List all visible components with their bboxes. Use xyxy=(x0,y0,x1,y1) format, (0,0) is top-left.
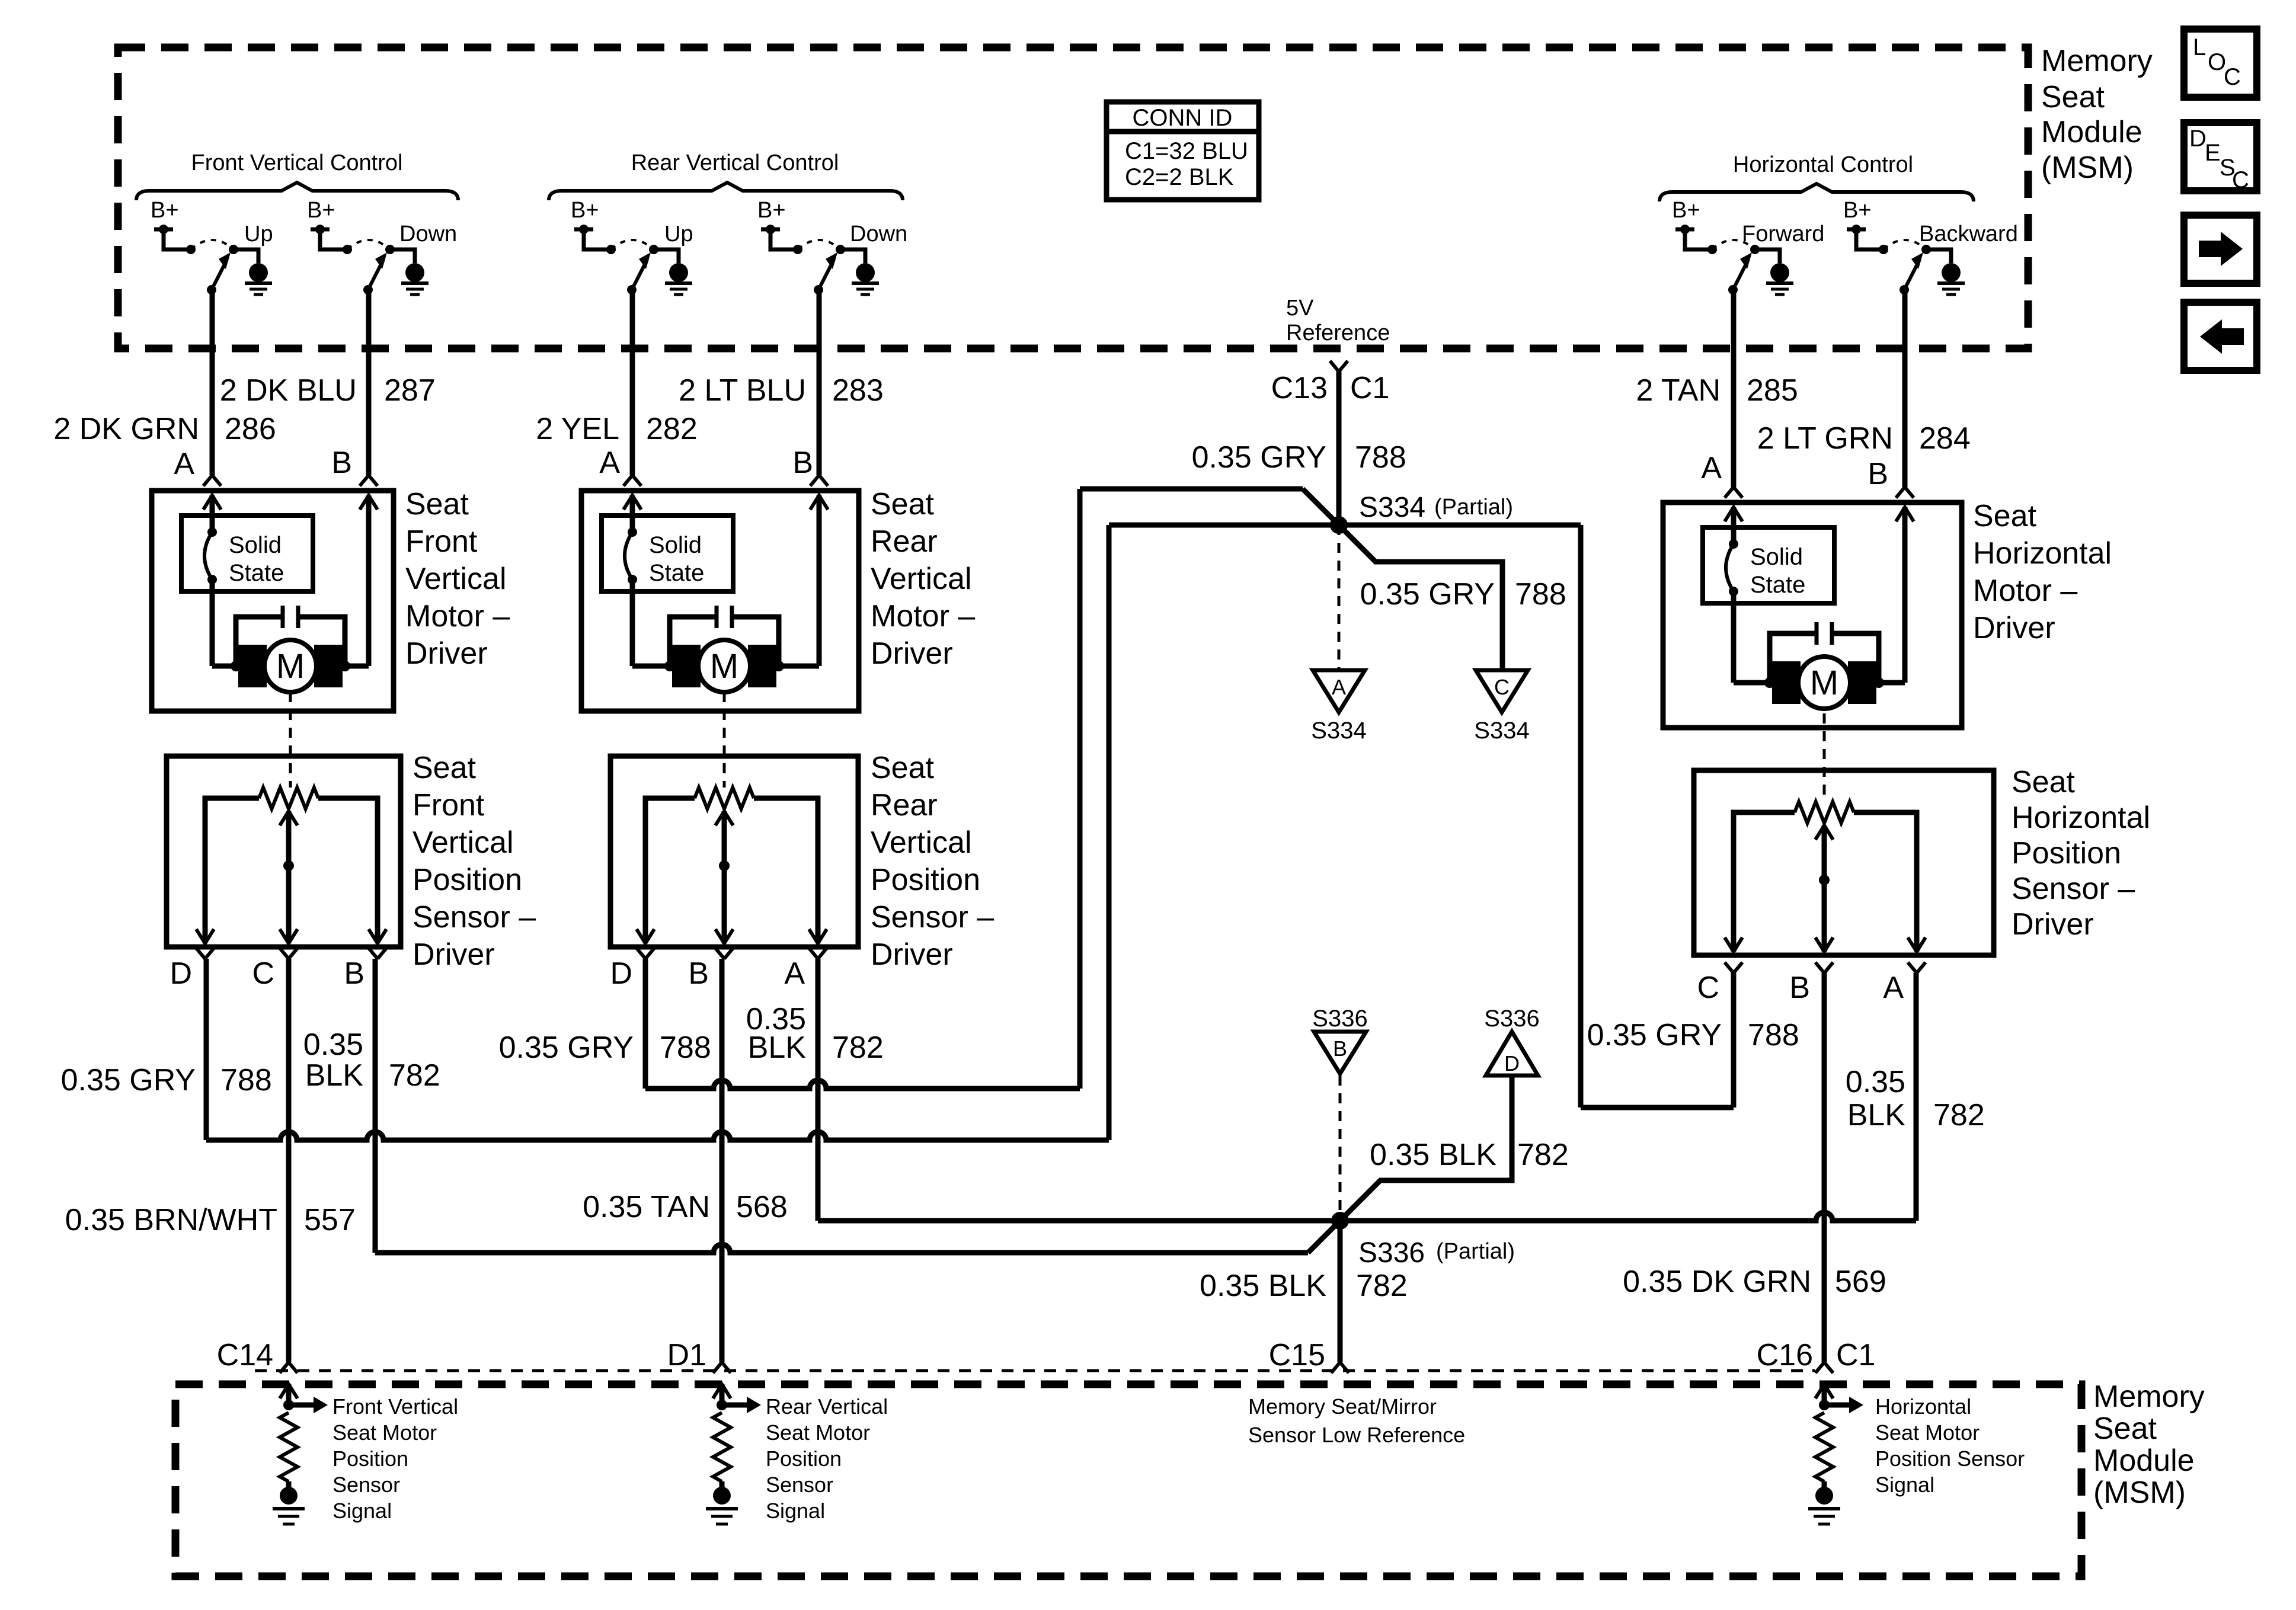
svg-text:Vertical: Vertical xyxy=(405,562,507,596)
svg-text:B+: B+ xyxy=(1843,198,1872,223)
svg-text:0.35: 0.35 xyxy=(303,1028,363,1062)
svg-text:S336: S336 xyxy=(1312,1006,1367,1032)
svg-text:Module: Module xyxy=(2093,1443,2195,1478)
svg-text:782: 782 xyxy=(832,1030,884,1065)
svg-text:0.35 BLK: 0.35 BLK xyxy=(1370,1138,1496,1172)
svg-text:BLK: BLK xyxy=(1847,1098,1906,1132)
svg-text:0.35: 0.35 xyxy=(1846,1065,1905,1099)
svg-text:788: 788 xyxy=(660,1030,711,1065)
svg-text:B: B xyxy=(792,446,813,480)
svg-text:M: M xyxy=(276,647,305,686)
svg-text:M: M xyxy=(1810,664,1838,702)
svg-text:569: 569 xyxy=(1835,1265,1886,1299)
svg-text:C16: C16 xyxy=(1757,1338,1813,1372)
svg-text:Reference: Reference xyxy=(1286,321,1390,345)
svg-text:0.35 DK GRN: 0.35 DK GRN xyxy=(1623,1265,1811,1299)
svg-text:2 DK BLU: 2 DK BLU xyxy=(220,373,357,408)
svg-text:Down: Down xyxy=(850,222,907,247)
svg-text:BLK: BLK xyxy=(305,1058,364,1093)
svg-text:Signal: Signal xyxy=(1875,1473,1934,1497)
svg-text:M: M xyxy=(710,647,738,686)
svg-text:D: D xyxy=(170,956,192,991)
svg-text:B: B xyxy=(1789,971,1810,1005)
svg-text:Vertical: Vertical xyxy=(412,825,514,860)
svg-text:2 TAN: 2 TAN xyxy=(1636,373,1721,408)
svg-text:788: 788 xyxy=(1355,440,1406,475)
svg-text:Rear Vertical Control: Rear Vertical Control xyxy=(631,151,839,175)
svg-text:557: 557 xyxy=(304,1203,356,1237)
svg-text:C14: C14 xyxy=(217,1338,273,1372)
svg-text:S336: S336 xyxy=(1358,1237,1425,1269)
svg-text:Front: Front xyxy=(412,788,485,822)
svg-text:A: A xyxy=(599,446,620,480)
svg-text:Sensor: Sensor xyxy=(766,1473,833,1497)
svg-text:B+: B+ xyxy=(757,198,786,223)
svg-text:788: 788 xyxy=(1748,1018,1799,1052)
svg-text:Signal: Signal xyxy=(766,1499,825,1523)
svg-text:(MSM): (MSM) xyxy=(2041,151,2134,185)
svg-text:Seat Motor: Seat Motor xyxy=(332,1420,437,1445)
svg-text:782: 782 xyxy=(389,1058,440,1093)
svg-text:D1: D1 xyxy=(667,1338,706,1372)
svg-text:B: B xyxy=(1868,457,1888,491)
svg-text:287: 287 xyxy=(384,373,436,408)
svg-text:Position: Position xyxy=(332,1446,408,1471)
svg-text:B+: B+ xyxy=(151,198,179,223)
svg-text:Horizontal: Horizontal xyxy=(1875,1394,1971,1419)
svg-text:B: B xyxy=(344,956,364,991)
svg-text:2 DK GRN: 2 DK GRN xyxy=(53,412,199,446)
svg-text:(Partial): (Partial) xyxy=(1434,495,1513,520)
svg-text:(Partial): (Partial) xyxy=(1436,1239,1515,1264)
svg-text:Front: Front xyxy=(405,524,478,559)
svg-text:2 YEL: 2 YEL xyxy=(536,412,619,446)
svg-text:C1=32 BLU: C1=32 BLU xyxy=(1125,138,1248,164)
svg-text:C: C xyxy=(2232,167,2249,193)
svg-text:C: C xyxy=(1697,971,1719,1005)
svg-text:0.35 BRN/WHT: 0.35 BRN/WHT xyxy=(65,1203,277,1237)
svg-text:285: 285 xyxy=(1747,373,1798,408)
svg-text:Seat Motor: Seat Motor xyxy=(1875,1420,1980,1445)
svg-text:Seat Motor: Seat Motor xyxy=(766,1420,870,1445)
svg-text:BLK: BLK xyxy=(748,1030,807,1065)
svg-text:0.35 GRY: 0.35 GRY xyxy=(61,1063,196,1097)
svg-text:Solid: Solid xyxy=(649,532,702,558)
svg-text:Sensor –: Sensor – xyxy=(412,900,536,934)
svg-text:282: 282 xyxy=(646,412,698,446)
svg-text:B: B xyxy=(331,446,352,480)
svg-text:0.35 BLK: 0.35 BLK xyxy=(1200,1269,1326,1303)
svg-text:782: 782 xyxy=(1356,1269,1408,1303)
svg-text:Horizontal: Horizontal xyxy=(1973,536,2112,571)
svg-text:S334: S334 xyxy=(1359,492,1425,523)
svg-text:Driver: Driver xyxy=(871,636,953,671)
svg-text:Front Vertical: Front Vertical xyxy=(332,1394,458,1419)
svg-text:S334: S334 xyxy=(1311,718,1366,744)
svg-text:C1: C1 xyxy=(1350,371,1389,405)
svg-text:283: 283 xyxy=(832,373,884,408)
svg-text:Signal: Signal xyxy=(332,1499,392,1523)
svg-text:C: C xyxy=(2224,64,2241,90)
svg-text:Rear Vertical: Rear Vertical xyxy=(766,1394,888,1419)
svg-text:C15: C15 xyxy=(1269,1338,1325,1372)
svg-text:5V: 5V xyxy=(1286,296,1314,321)
svg-text:Module: Module xyxy=(2041,115,2142,149)
svg-text:Sensor –: Sensor – xyxy=(871,900,994,934)
svg-text:D: D xyxy=(2189,126,2207,152)
svg-text:0.35 GRY: 0.35 GRY xyxy=(1360,577,1495,612)
svg-text:Driver: Driver xyxy=(871,937,953,972)
svg-text:2 LT BLU: 2 LT BLU xyxy=(679,373,806,408)
svg-text:Forward: Forward xyxy=(1742,222,1824,247)
svg-text:Front Vertical Control: Front Vertical Control xyxy=(191,151,403,175)
svg-text:0.35 GRY: 0.35 GRY xyxy=(1587,1018,1722,1052)
svg-text:0.35 TAN: 0.35 TAN xyxy=(583,1190,710,1224)
svg-text:State: State xyxy=(229,560,284,586)
svg-text:Memory: Memory xyxy=(2093,1379,2205,1414)
svg-text:Up: Up xyxy=(244,222,273,247)
svg-text:Position Sensor: Position Sensor xyxy=(1875,1446,2025,1471)
svg-text:Position: Position xyxy=(2012,836,2121,870)
svg-text:Seat: Seat xyxy=(405,487,469,521)
svg-text:B+: B+ xyxy=(571,198,599,223)
svg-text:State: State xyxy=(1750,572,1805,598)
svg-text:568: 568 xyxy=(736,1190,788,1224)
svg-text:A: A xyxy=(1883,971,1904,1005)
svg-text:Position: Position xyxy=(871,863,980,897)
svg-text:A: A xyxy=(174,447,194,481)
svg-text:D: D xyxy=(1504,1051,1520,1076)
svg-text:Sensor –: Sensor – xyxy=(2012,872,2135,906)
svg-text:Seat: Seat xyxy=(871,751,935,785)
svg-text:2 LT GRN: 2 LT GRN xyxy=(1757,421,1893,456)
svg-text:Seat: Seat xyxy=(2093,1411,2157,1446)
svg-text:CONN ID: CONN ID xyxy=(1133,105,1233,131)
svg-text:L: L xyxy=(2193,34,2206,60)
svg-text:284: 284 xyxy=(1919,421,1971,456)
svg-text:A: A xyxy=(1332,675,1346,699)
svg-text:Motor –: Motor – xyxy=(1973,574,2077,608)
svg-text:Memory: Memory xyxy=(2041,44,2153,78)
svg-text:C1: C1 xyxy=(1836,1338,1875,1372)
svg-text:Position: Position xyxy=(412,863,522,897)
svg-text:Solid: Solid xyxy=(1750,544,1803,570)
svg-text:Down: Down xyxy=(399,222,457,247)
svg-text:782: 782 xyxy=(1933,1098,1985,1132)
svg-text:Sensor: Sensor xyxy=(332,1473,400,1497)
svg-text:Position: Position xyxy=(766,1446,842,1471)
svg-text:C13: C13 xyxy=(1271,371,1328,405)
svg-text:Rear: Rear xyxy=(871,788,938,822)
svg-text:788: 788 xyxy=(1515,577,1566,612)
svg-text:E: E xyxy=(2205,140,2221,166)
svg-text:Seat: Seat xyxy=(1973,499,2037,533)
svg-text:782: 782 xyxy=(1517,1138,1569,1172)
svg-text:B+: B+ xyxy=(307,198,335,223)
svg-text:Horizontal Control: Horizontal Control xyxy=(1733,152,1913,177)
svg-text:Seat: Seat xyxy=(412,751,477,785)
svg-text:B+: B+ xyxy=(1672,198,1700,223)
svg-text:Driver: Driver xyxy=(405,636,488,671)
svg-text:788: 788 xyxy=(220,1063,272,1097)
svg-text:Motor –: Motor – xyxy=(871,599,975,633)
svg-text:C: C xyxy=(252,956,274,991)
svg-text:C2=2 BLK: C2=2 BLK xyxy=(1125,164,1234,190)
svg-text:(MSM): (MSM) xyxy=(2093,1475,2186,1510)
svg-text:Sensor Low Reference: Sensor Low Reference xyxy=(1248,1423,1465,1447)
svg-text:A: A xyxy=(1701,451,1722,485)
svg-text:Seat: Seat xyxy=(871,487,935,521)
svg-text:Backward: Backward xyxy=(1919,222,2018,247)
svg-text:Horizontal: Horizontal xyxy=(2012,801,2150,835)
svg-text:Solid: Solid xyxy=(229,532,282,558)
svg-text:B: B xyxy=(1333,1036,1347,1061)
svg-text:Up: Up xyxy=(664,222,693,247)
svg-text:Driver: Driver xyxy=(412,937,495,972)
svg-text:Vertical: Vertical xyxy=(871,562,972,596)
svg-text:Seat: Seat xyxy=(2012,765,2076,799)
svg-text:B: B xyxy=(688,956,709,991)
svg-text:S334: S334 xyxy=(1474,718,1529,744)
svg-text:0.35 GRY: 0.35 GRY xyxy=(499,1030,634,1065)
svg-text:Rear: Rear xyxy=(871,524,938,559)
svg-text:State: State xyxy=(649,560,704,586)
svg-text:Seat: Seat xyxy=(2041,80,2105,114)
svg-text:A: A xyxy=(784,956,805,991)
svg-text:286: 286 xyxy=(225,412,276,446)
svg-text:Driver: Driver xyxy=(1973,611,2055,645)
svg-text:0.35 GRY: 0.35 GRY xyxy=(1192,440,1326,475)
svg-text:Motor –: Motor – xyxy=(405,599,510,633)
svg-text:C: C xyxy=(1494,675,1510,699)
svg-text:Driver: Driver xyxy=(2012,907,2094,942)
svg-text:Memory Seat/Mirror: Memory Seat/Mirror xyxy=(1248,1394,1437,1419)
svg-text:D: D xyxy=(610,956,632,991)
svg-text:Vertical: Vertical xyxy=(871,825,972,860)
